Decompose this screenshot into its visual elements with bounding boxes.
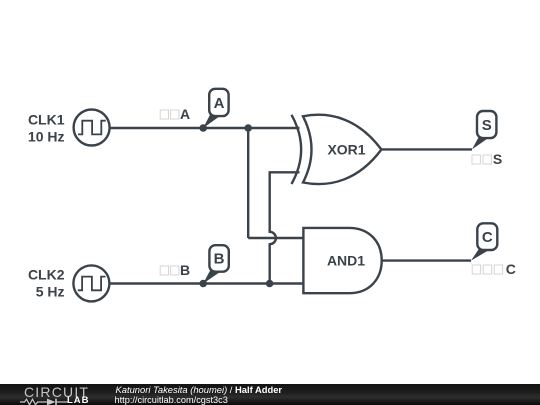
- junction node A branch: [244, 124, 252, 132]
- svg-text:XOR1: XOR1: [327, 141, 365, 157]
- wire node A branch horizontal to AND1 input: [248, 237, 303, 239]
- wire B branch vertical with hop over A-AND wire, to XOR1 lower input: [270, 172, 300, 283]
- xor gate XOR1: [292, 115, 382, 184]
- label net A checkboxes: [160, 106, 190, 122]
- logo LAB text: [67, 396, 90, 405]
- svg-text:B: B: [214, 251, 225, 268]
- logo resistor-diode squiggle: [20, 398, 68, 405]
- junction node B branch: [266, 280, 274, 288]
- wire node A branch vertical down: [247, 128, 249, 238]
- logo CIRCUIT text: [24, 385, 89, 400]
- svg-text:B: B: [180, 262, 190, 278]
- junction node B at flag attach: [199, 280, 207, 288]
- svg-text:C: C: [482, 229, 493, 246]
- svg-text:C: C: [506, 261, 516, 277]
- svg-text:AND1: AND1: [327, 253, 365, 269]
- clock source CLK2: [73, 265, 109, 301]
- svg-text:CLK1: CLK1: [28, 111, 65, 127]
- svg-text:A: A: [180, 106, 190, 122]
- svg-text:5 Hz: 5 Hz: [36, 284, 65, 300]
- wire XOR1 output to flag S: [381, 148, 472, 150]
- flag A pointer: [203, 111, 219, 129]
- wire AND1 output to flag C: [382, 259, 471, 261]
- clock source CLK1: [74, 110, 110, 146]
- svg-text:CLK2: CLK2: [28, 266, 65, 282]
- flag B pointer: [203, 267, 219, 284]
- svg-text:S: S: [482, 117, 492, 134]
- svg-text:S: S: [493, 151, 502, 167]
- and gate AND1: [303, 228, 381, 293]
- svg-text:A: A: [214, 95, 225, 112]
- wire CLK2 output to AND1 input B net: [110, 282, 304, 284]
- flag S pointer: [472, 135, 488, 149]
- label net S checkboxes: [472, 151, 502, 167]
- label net C checkboxes: [472, 261, 516, 277]
- flag B box: [209, 245, 228, 272]
- label net B checkboxes: [160, 262, 190, 278]
- footer bar: [0, 384, 540, 405]
- flag C pointer: [471, 247, 488, 260]
- footer title text: [116, 385, 283, 395]
- svg-text:10 Hz: 10 Hz: [28, 128, 65, 144]
- wire CLK1 output to XOR1 input A net: [110, 127, 300, 129]
- flag C box: [477, 223, 497, 250]
- junction node A at flag attach: [199, 124, 207, 132]
- flag A box: [209, 89, 228, 116]
- footer url text: [115, 395, 228, 405]
- flag S box: [477, 111, 496, 138]
